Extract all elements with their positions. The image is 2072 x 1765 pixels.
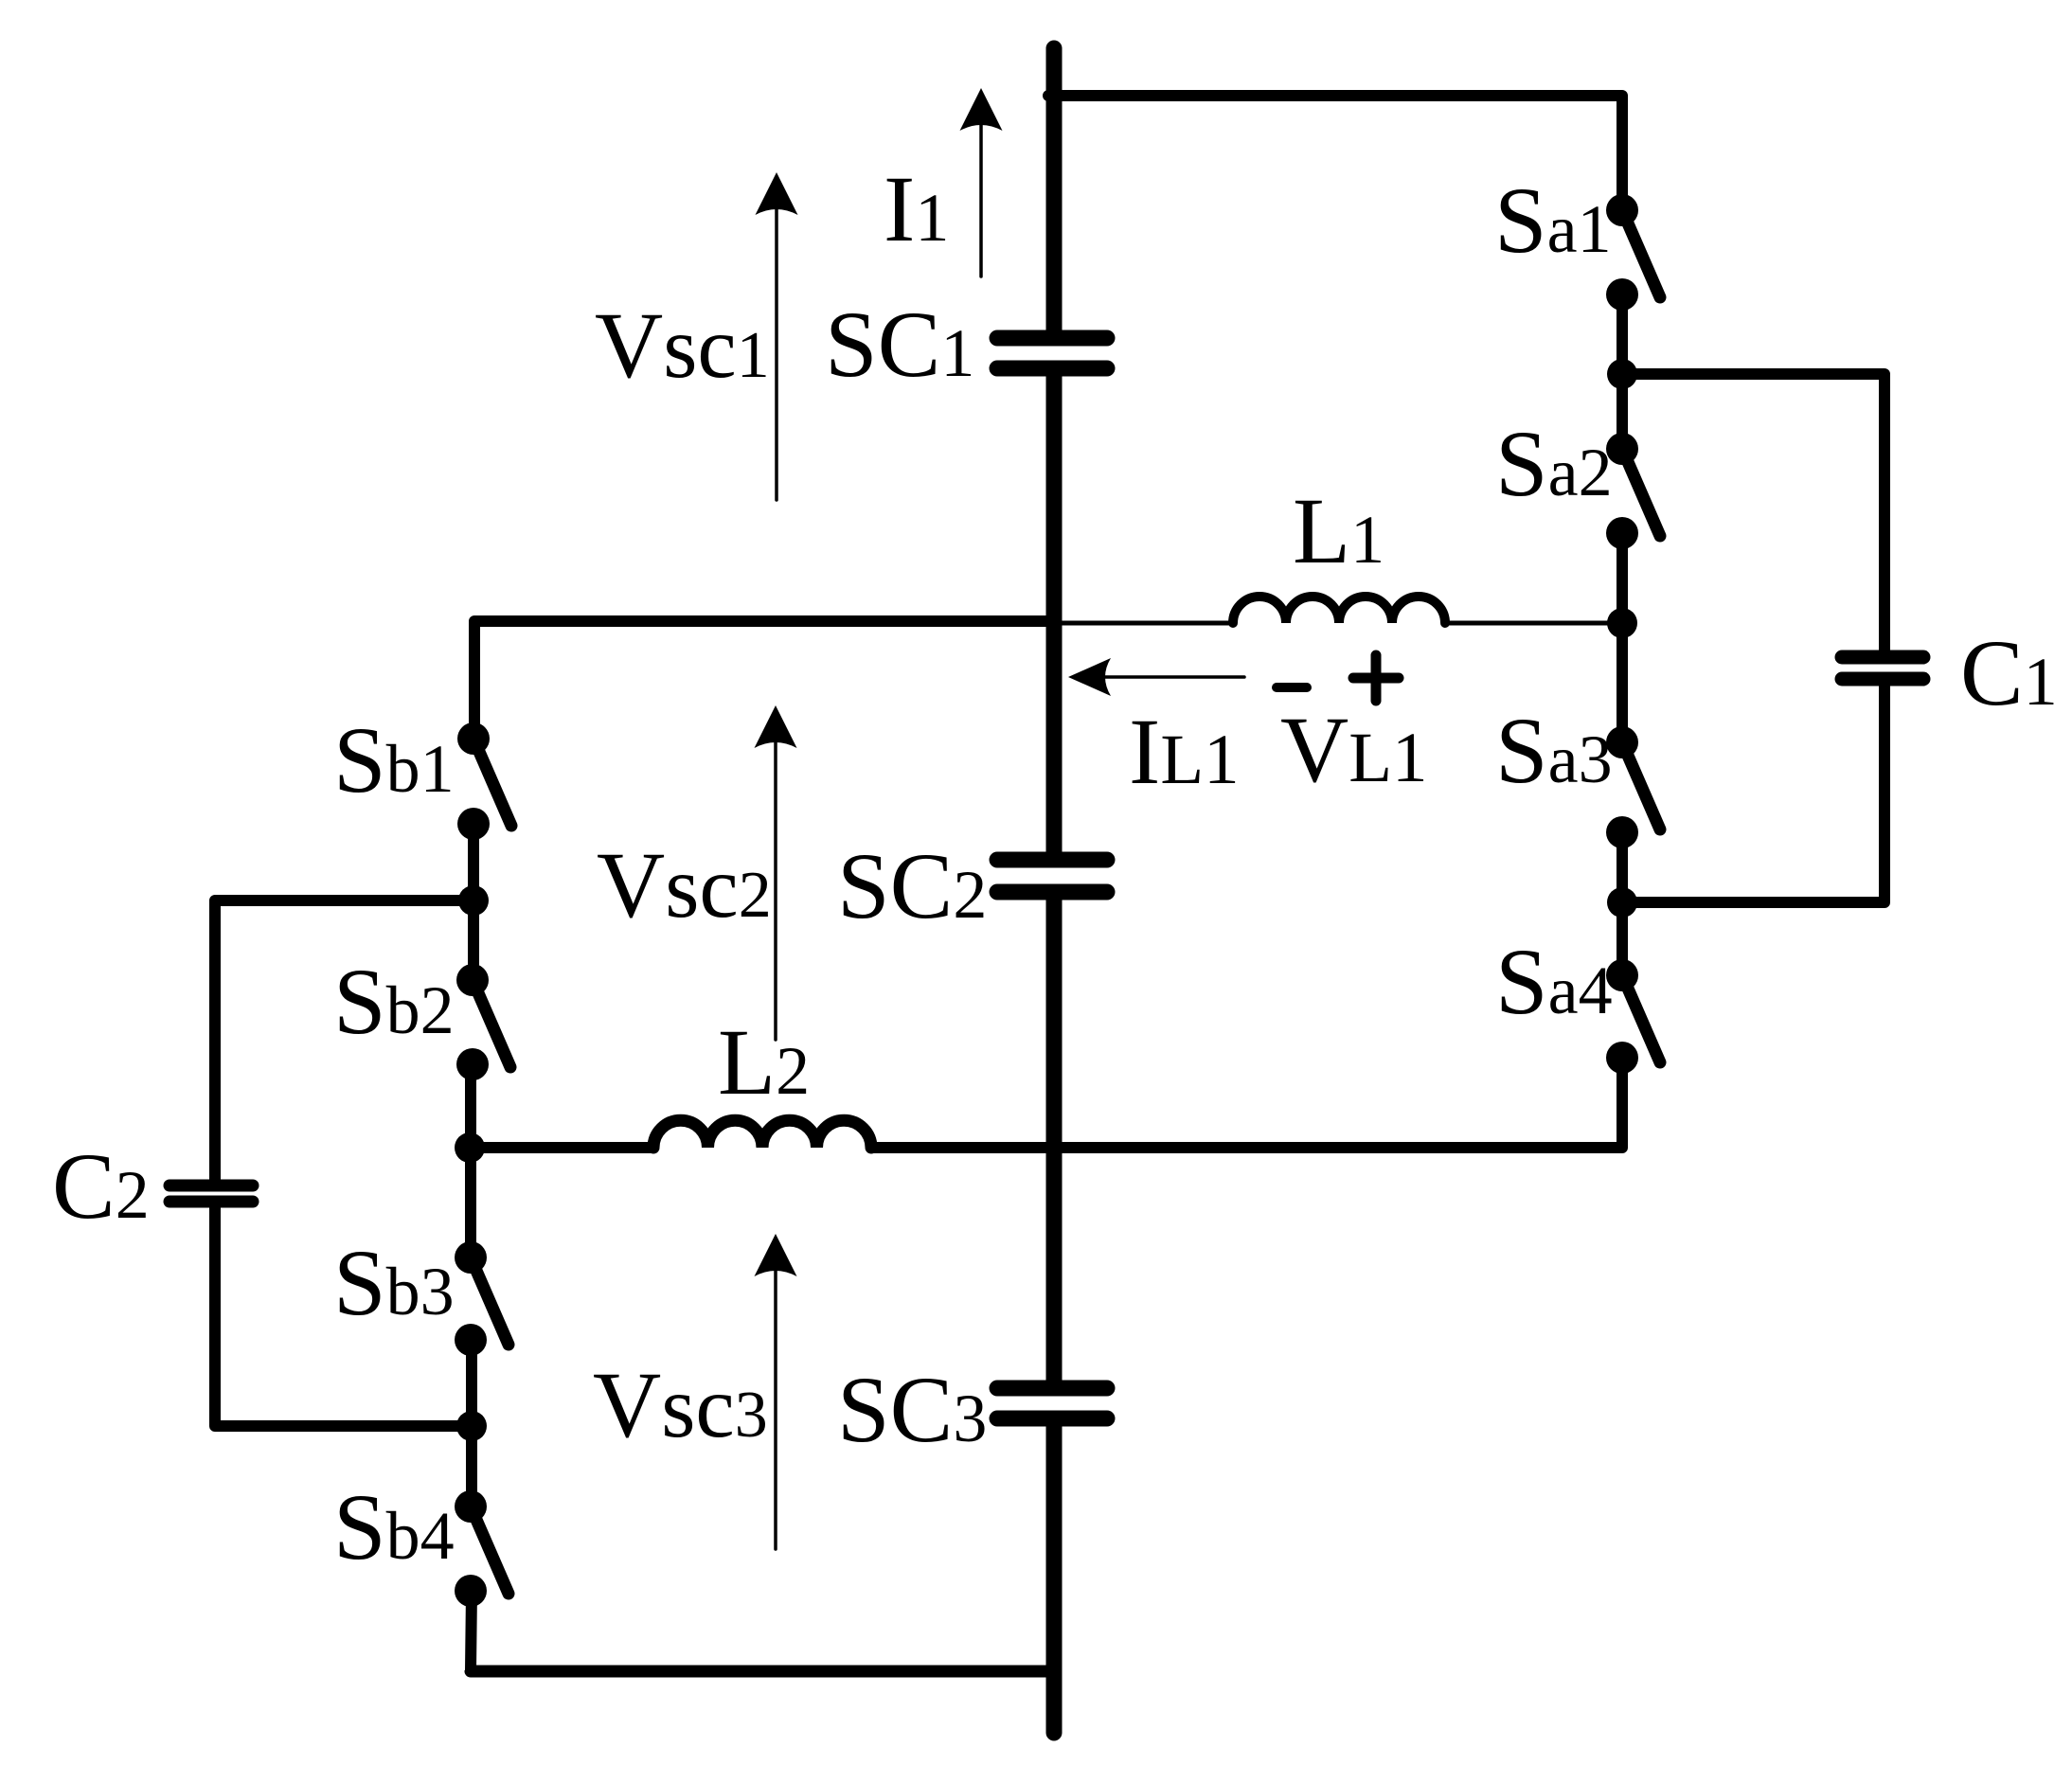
- wire L1 right (inductor to Sa chain): [1445, 621, 1622, 626]
- arrow Vsc3 voltage: [755, 1234, 797, 1549]
- wire L2 left (junction to inductor): [470, 1142, 653, 1153]
- node A (C1 top junction): [1607, 359, 1637, 389]
- wire C2 branch top: [215, 900, 473, 1186]
- wire C1 branch bottom: [1622, 679, 1884, 902]
- wire main bus segment 1 (top): [1046, 48, 1063, 338]
- wire Sb4 to bottom corner: [471, 1591, 472, 1670]
- wire Sa1 to node A: [1617, 294, 1628, 449]
- arrow IL1 current: [1068, 658, 1244, 696]
- switch Sa4: [1606, 959, 1660, 1074]
- capacitor SC1: [997, 338, 1107, 368]
- wire main bus segment 2 (SC1 to SC2): [1046, 368, 1063, 860]
- inductor L2: [653, 1120, 871, 1148]
- polarity minus VL1: [1277, 683, 1307, 692]
- switch Sa3: [1606, 726, 1660, 848]
- capacitor C2: [170, 1186, 253, 1202]
- switch Sb3: [455, 1241, 509, 1356]
- wire Sa4 to L2 row corner: [1610, 1058, 1622, 1148]
- wire C2 branch bottom: [215, 1202, 472, 1426]
- wire Sb1 to node C (C2 top junction): [468, 824, 479, 980]
- node D (C2 bottom junction): [456, 1411, 487, 1441]
- polarity plus VL1: [1353, 655, 1399, 701]
- switch Sb4: [455, 1490, 509, 1607]
- wire L2 right (inductor to Sa chain corner): [871, 1142, 1617, 1153]
- wire Sa3 to node B: [1617, 832, 1628, 975]
- switch Sb2: [456, 964, 510, 1080]
- switch Sa2: [1606, 433, 1660, 549]
- wire top horizontal (bus to Sa1): [1048, 96, 1622, 210]
- node L2-left junction: [455, 1132, 485, 1163]
- capacitor SC3: [997, 1388, 1107, 1418]
- arrow Vsc1 voltage: [756, 172, 798, 500]
- inductor L1: [1233, 597, 1445, 623]
- capacitor C1: [1842, 657, 1923, 679]
- wire Sb3 to node D (C2 bottom junction): [466, 1340, 477, 1506]
- wire L1 left (bus to inductor): [1054, 621, 1233, 626]
- arrow Vsc2 voltage: [755, 705, 797, 1040]
- wire Sa2 to node L1: [1617, 533, 1628, 742]
- node L1-right junction: [1607, 608, 1637, 638]
- wire Sb chain top corner to bus: [474, 621, 1054, 739]
- switch Sb1: [457, 722, 511, 840]
- wire main bus segment 3 (SC2 to SC3): [1046, 892, 1063, 1388]
- wire C1 branch top: [1622, 374, 1884, 657]
- wire Sb2 to node L2: [465, 1064, 476, 1257]
- wire bottom (Sb4 corner to bus): [471, 1670, 1054, 1671]
- node C (C2 top junction): [458, 885, 489, 916]
- node B (C1 bottom junction): [1607, 887, 1637, 918]
- arrow I1 current: [960, 88, 1003, 276]
- capacitor SC2: [997, 860, 1107, 892]
- switch Sa1: [1606, 194, 1660, 311]
- wire main bus segment 4 (SC3 to bottom): [1046, 1418, 1063, 1733]
